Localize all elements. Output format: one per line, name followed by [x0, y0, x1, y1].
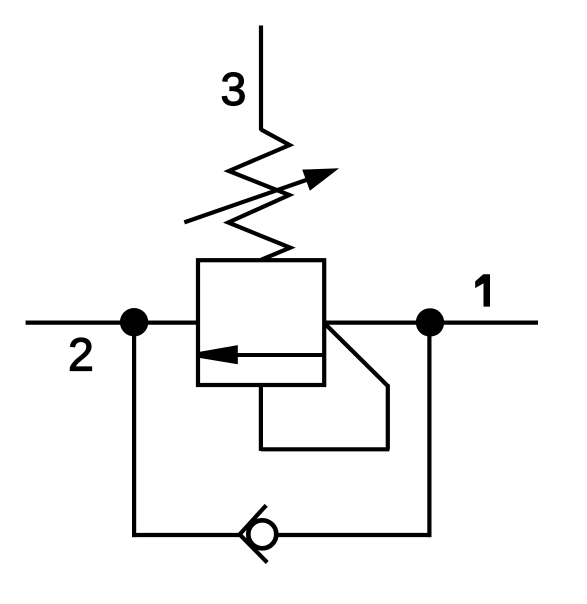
check valve ball: [248, 520, 276, 548]
pilot wire right vertical: [386, 385, 390, 450]
wire left branch down: [132, 322, 136, 537]
pilot line diagonal: [324, 323, 388, 386]
flow path arrow head: [200, 345, 238, 364]
pilot wire bottom horizontal: [261, 447, 390, 451]
wire right branch down: [427, 322, 431, 537]
adjustment arrow shaft: [184, 178, 312, 222]
flow path arrow line: [236, 353, 324, 357]
wire port 2 horizontal: [26, 321, 199, 325]
wire bypass bottom right: [276, 533, 432, 537]
check valve seat: [240, 505, 268, 562]
svg-text:2: 2: [68, 329, 94, 381]
adjustment arrow head: [303, 169, 338, 190]
valve body U1: [198, 260, 324, 385]
junction dot right: [416, 308, 444, 336]
label 1: [476, 275, 490, 307]
wire port 3 vertical: [259, 26, 263, 131]
svg-text:3: 3: [221, 63, 247, 115]
wire port 1 horizontal: [324, 321, 538, 325]
junction dot left: [120, 308, 148, 336]
pilot wire left vertical: [259, 385, 263, 451]
wire bypass bottom left: [132, 533, 241, 537]
spring (adjustable regulator spring): [228, 130, 290, 260]
